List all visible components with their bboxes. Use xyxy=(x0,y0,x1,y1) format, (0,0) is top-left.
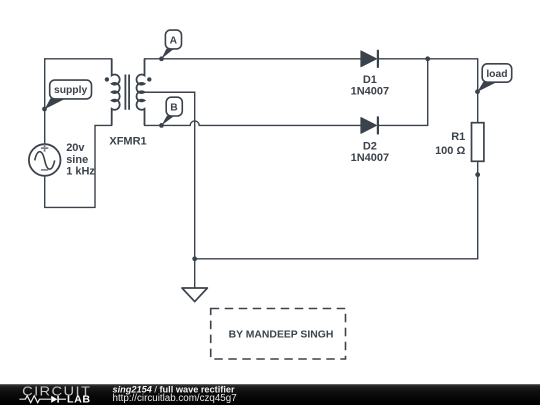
resistor R1 xyxy=(472,123,484,162)
CircuitLab logo xyxy=(19,383,91,405)
wire: top-left horizontal from source column to primary top xyxy=(45,58,112,60)
wire: top junction down to D2 output level xyxy=(427,59,429,126)
svg-text:1 kHz: 1 kHz xyxy=(66,165,95,177)
svg-text:D2: D2 xyxy=(363,141,377,153)
svg-text:sine: sine xyxy=(66,154,88,166)
junction: D1/D2 outputs meet xyxy=(425,56,430,61)
wire: ground rail horizontal xyxy=(195,258,478,260)
transformer core xyxy=(125,75,129,110)
label D2 1N4007 xyxy=(351,141,390,164)
transformer primary phase dot xyxy=(105,77,109,81)
node load flag xyxy=(475,64,512,94)
footer bar xyxy=(0,384,540,405)
transformer XFMR1 secondary winding (center-tapped) xyxy=(136,59,144,126)
svg-text:supply: supply xyxy=(54,85,87,96)
svg-text:R1: R1 xyxy=(451,131,465,143)
svg-text:100 Ω: 100 Ω xyxy=(435,145,465,157)
wire: source bottom down to bottom-left corner xyxy=(44,176,46,208)
wire: D1 cathode to top junction xyxy=(378,58,428,60)
annotation dashed box BY MANDEEP SINGH xyxy=(211,309,346,360)
junction: ground rail / center tap xyxy=(192,256,197,261)
node B flag xyxy=(159,97,182,128)
svg-text:1N4007: 1N4007 xyxy=(351,85,390,97)
wire: left vertical from top corner down to source top xyxy=(44,59,46,144)
wire: top junction to top-right corner and down to R1 xyxy=(428,59,478,123)
voltage source V1 (20v sine 1 kHz) xyxy=(29,144,61,176)
wire: bottom of primary loop horizontal xyxy=(45,206,95,208)
svg-text:LAB: LAB xyxy=(67,395,91,405)
wire: secondary bottom (node B) horizontal with hop over center-tap wire xyxy=(145,121,362,126)
node supply flag xyxy=(42,80,91,111)
value label: 20v sine 1 kHz xyxy=(66,142,95,177)
wire: vertical riser x=95 from primary bottom jog to loop bottom xyxy=(94,125,96,207)
svg-text:load: load xyxy=(486,69,507,80)
svg-text:XFMR1: XFMR1 xyxy=(109,135,146,147)
wire: secondary top horizontal to diode D1 anode xyxy=(145,58,362,60)
wire: ground stub below rail junction xyxy=(194,259,196,288)
svg-text:1N4007: 1N4007 xyxy=(351,152,390,164)
junction: R1 bottom xyxy=(475,172,480,177)
wire: center tap to the right then down to ground rail xyxy=(145,92,195,259)
label R1 100 Ohm xyxy=(435,131,465,157)
svg-text:D1: D1 xyxy=(363,74,377,86)
wire: D2 cathode to junction riser xyxy=(378,124,428,126)
svg-text:B: B xyxy=(170,102,177,113)
diode D1 xyxy=(361,50,378,68)
wire: primary bottom jog horizontal xyxy=(95,124,112,126)
svg-text:BY MANDEEP SINGH: BY MANDEEP SINGH xyxy=(229,330,334,341)
svg-text:http://circuitlab.com/czq45g7: http://circuitlab.com/czq45g7 xyxy=(113,393,237,404)
diode D2 xyxy=(361,116,378,134)
ground xyxy=(182,288,207,302)
transformer XFMR1 primary winding xyxy=(112,59,120,126)
node A flag xyxy=(159,30,181,61)
label D1 1N4007 xyxy=(351,74,390,97)
svg-text:20v: 20v xyxy=(66,142,85,154)
wire: R1 bottom down to ground rail xyxy=(477,161,479,258)
transformer secondary phase dot xyxy=(147,77,151,81)
svg-text:A: A xyxy=(170,35,178,46)
